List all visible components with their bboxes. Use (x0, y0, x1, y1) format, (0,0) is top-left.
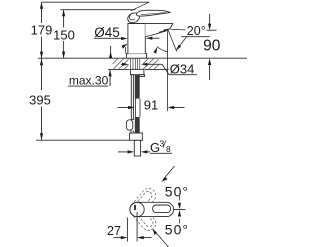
hose middle white tube (135, 99, 137, 117)
arrow down 395 (40, 133, 43, 140)
pill inner rounded rect (153, 205, 171, 213)
small leader arrow at body base corner (121, 43, 128, 49)
svg-text:20°: 20° (187, 24, 206, 38)
dim 27 right arrow (141, 237, 152, 239)
svg-text:3: 3 (160, 139, 165, 149)
lower 50 leader (155, 231, 169, 247)
leader arrow to aerator (159, 30, 166, 32)
max.30 upper arrow above deck (110, 46, 112, 58)
90 top reference line (207, 29, 217, 31)
faucet body column (128, 23, 145, 53)
dimension 91 right (171, 107, 185, 109)
arrow up 395 (40, 59, 43, 66)
dimension 91 left (118, 107, 132, 109)
deck bottom line (108, 68, 130, 70)
extension line lever tip height (61, 9, 136, 11)
deck top line (38, 57, 129, 59)
shank through deck (131, 58, 140, 69)
dark flexible hose upper (135, 75, 140, 99)
lever knob (126, 11, 141, 24)
Ø45 right arrow (150, 37, 160, 39)
check valve on left tube (126, 120, 132, 130)
left tube below valve (130, 131, 132, 134)
arrow up 150 (62, 10, 65, 17)
Ø45 left arrow (121, 38, 125, 40)
max.30 riser below deck (109, 70, 111, 87)
lever raised position line (131, 2, 149, 11)
Ø34 leader diagonal (162, 64, 169, 74)
arrow down 150 (62, 52, 65, 59)
svg-text:90: 90 (203, 38, 221, 55)
angle 20 leader from label (178, 37, 187, 49)
G3/8 dim left arrow (118, 151, 131, 153)
dimension 150 line upper (63, 10, 65, 28)
395 bottom reference line (36, 139, 130, 141)
lever blade inner line (141, 13, 166, 15)
faucet outline: plinth (126, 54, 146, 59)
svg-text:Ø34: Ø34 (170, 61, 195, 76)
nut step (139, 75, 145, 77)
center tick (134, 205, 136, 210)
arrow up 179 (40, 2, 43, 9)
lever blade (136, 10, 170, 16)
svg-text:91: 91 (144, 98, 158, 113)
aerator level line (171, 28, 186, 31)
pill left circle (130, 202, 144, 216)
svg-text:50°: 50° (165, 222, 189, 238)
svg-text:50°: 50° (165, 183, 189, 199)
dimension 395 line upper (41, 58, 43, 90)
dark flexible hose lower (135, 117, 140, 133)
G3/8 underline (150, 152, 172, 154)
dimension 179 line lower (41, 37, 43, 59)
dim 27 left arrow (114, 237, 125, 239)
G3/8 nipple (134, 140, 140, 156)
deck hatch left (113, 58, 129, 69)
dimension 179 line upper (41, 2, 43, 23)
body top edge (128, 22, 145, 24)
svg-text:27: 27 (107, 224, 121, 238)
G3/8 dim right arrow (144, 151, 150, 153)
dimension 150 line lower (63, 41, 65, 58)
upper 50 leader (163, 166, 175, 180)
solid lever plan (pill) (130, 202, 174, 216)
svg-text:8: 8 (166, 144, 171, 154)
max.30 underline (68, 85, 108, 87)
Ø34 right arrow (141, 63, 148, 66)
angle arc bar (179, 196, 181, 201)
dim 27 ext line left (126, 218, 128, 242)
dim 27 ext line right (136, 212, 138, 242)
deck hatch right (143, 58, 159, 69)
angle 20 tilted line (168, 30, 177, 52)
svg-text:179: 179 (31, 23, 53, 38)
dimension 395 line lower (41, 107, 43, 140)
extension line top (lever max height) (42, 1, 150, 3)
plan centerline (174, 209, 186, 211)
Ø45 underline (94, 37, 121, 39)
svg-text:395: 395 (29, 93, 51, 108)
dashed lever rotated up 50 (127, 186, 159, 220)
20deg underline (181, 36, 210, 38)
svg-text:150: 150 (53, 27, 75, 42)
mounting nut (130, 69, 144, 74)
arrow down 179 (40, 52, 43, 59)
svg-text:max.30: max.30 (69, 74, 109, 88)
Ø34 left arrow (121, 63, 126, 65)
Ø34 leader horizontal (148, 63, 162, 65)
angle 20 arc (157, 47, 168, 52)
angle 20 vertical reference (167, 31, 169, 112)
left supply tube (131, 75, 133, 120)
spout (145, 23, 172, 36)
90 bottom arrow (209, 65, 211, 81)
dashed lever rotated down 50 (127, 199, 159, 233)
Ø34 underline (169, 74, 197, 76)
svg-text:Ø45: Ø45 (94, 25, 120, 40)
90 top arrow (209, 14, 211, 24)
G3/8 adapter block (130, 133, 143, 140)
